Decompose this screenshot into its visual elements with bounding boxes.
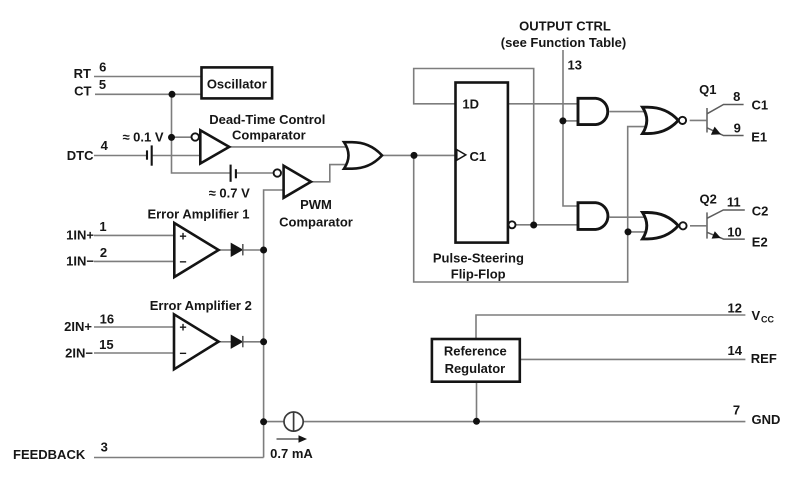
svg-text:7: 7 [733,403,740,418]
svg-text:FEEDBACK: FEEDBACK [13,447,86,462]
svg-text:PWM: PWM [300,197,332,212]
svg-text:10: 10 [727,224,741,239]
svg-text:REF: REF [751,351,777,366]
svg-text:Oscillator: Oscillator [207,76,267,91]
svg-text:OUTPUT CTRL: OUTPUT CTRL [519,18,611,33]
svg-text:13: 13 [568,58,582,73]
svg-text:+: + [179,321,186,335]
svg-text:+: + [179,229,186,243]
svg-text:C2: C2 [752,203,769,218]
svg-text:8: 8 [733,89,740,104]
svg-text:V: V [752,308,761,323]
svg-text:E1: E1 [751,129,767,144]
svg-text:2IN−: 2IN− [65,345,93,360]
svg-text:GND: GND [752,412,781,427]
svg-text:≈ 0.1 V: ≈ 0.1 V [122,129,163,144]
svg-text:≈ 0.7 V: ≈ 0.7 V [209,186,250,201]
svg-text:2IN+: 2IN+ [64,319,92,334]
svg-text:Error Amplifier 2: Error Amplifier 2 [150,298,252,313]
svg-text:−: − [179,346,186,360]
svg-text:1IN−: 1IN− [66,253,94,268]
svg-text:2: 2 [100,245,107,260]
svg-text:CT: CT [74,84,91,99]
svg-text:RT: RT [74,66,91,81]
svg-text:Flip-Flop: Flip-Flop [451,267,506,282]
svg-text:12: 12 [728,300,742,315]
svg-text:1: 1 [99,219,106,234]
svg-text:Dead-Time Control: Dead-Time Control [209,112,325,127]
svg-text:4: 4 [101,138,109,153]
svg-text:CC: CC [761,314,774,324]
svg-text:Reference: Reference [444,344,507,359]
svg-text:Q1: Q1 [699,82,716,97]
svg-text:16: 16 [100,312,114,327]
svg-text:C1: C1 [470,149,487,164]
svg-text:(see Function Table): (see Function Table) [501,35,626,50]
svg-text:Comparator: Comparator [279,215,353,230]
svg-text:9: 9 [734,121,741,136]
svg-text:DTC: DTC [67,148,94,163]
svg-text:1D: 1D [462,97,479,112]
svg-text:6: 6 [99,59,106,74]
svg-text:E2: E2 [752,235,768,250]
svg-text:−: − [179,255,186,269]
svg-text:14: 14 [728,343,743,358]
svg-text:3: 3 [101,440,108,455]
svg-text:11: 11 [727,195,741,210]
svg-text:Comparator: Comparator [232,128,306,143]
svg-text:C1: C1 [752,98,769,113]
svg-text:1IN+: 1IN+ [66,227,94,242]
svg-text:Regulator: Regulator [445,361,506,376]
svg-text:0.7 mA: 0.7 mA [270,446,313,461]
svg-text:Error Amplifier 1: Error Amplifier 1 [147,206,249,221]
svg-text:Pulse-Steering: Pulse-Steering [433,250,524,265]
svg-text:15: 15 [99,337,113,352]
svg-text:5: 5 [99,77,106,92]
svg-text:Q2: Q2 [700,192,717,207]
